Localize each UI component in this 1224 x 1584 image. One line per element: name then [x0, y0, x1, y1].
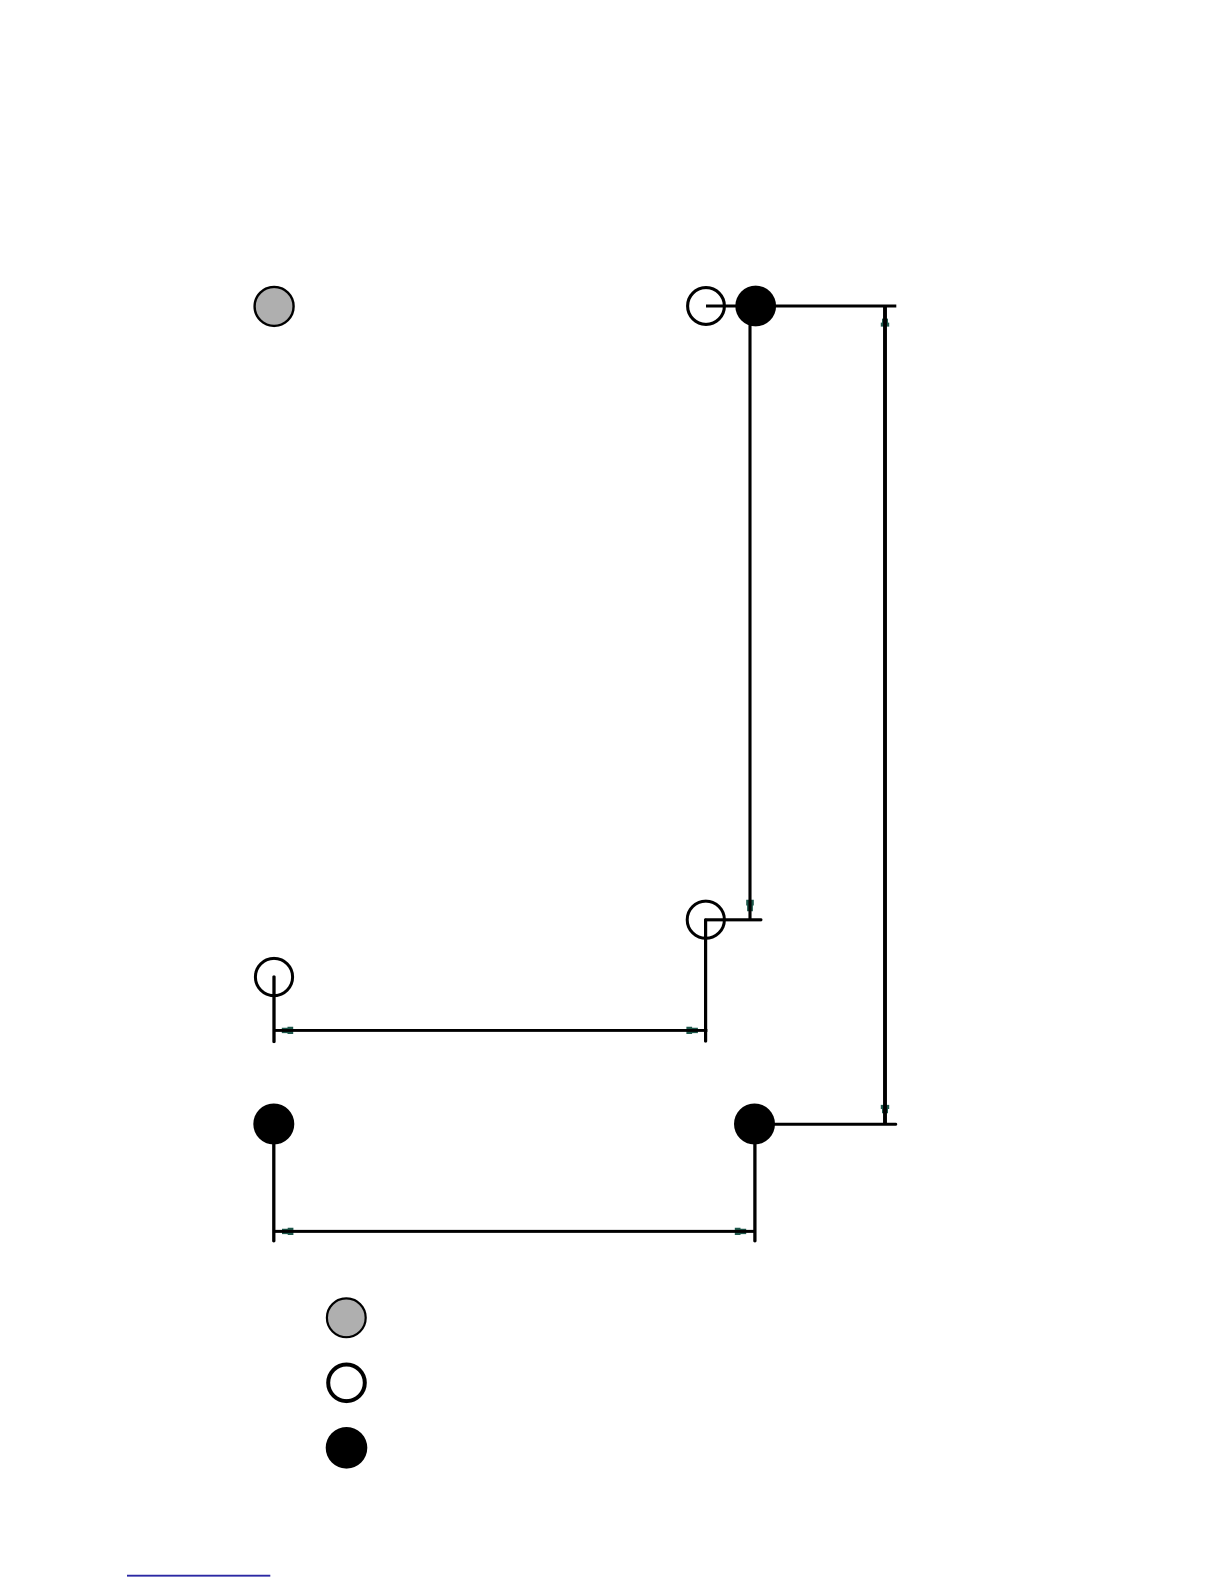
legend: black circle — [326, 1427, 368, 1469]
wire: vertical line from top black circle down to middle white circle level — [748, 306, 751, 920]
node: white circle top (proposed point) — [688, 288, 725, 325]
arrowhead down on line from top black circle — [746, 900, 754, 912]
wire: top horizontal line from white circle through black circle to right — [706, 305, 896, 308]
node: black circle bottom-left — [253, 1104, 294, 1145]
legend: gray circle — [327, 1298, 366, 1337]
wire: vertical extension below bottom-left black circle — [272, 1124, 275, 1241]
node: white circle middle — [687, 901, 724, 938]
node: black circle bottom-right — [734, 1104, 775, 1145]
wire: bottom horizontal dimension line — [274, 1230, 755, 1233]
wire: vertical extension below left white circle — [272, 977, 275, 1042]
wire: long right vertical dimension line — [883, 306, 887, 1124]
node: black circle top (fixed point) — [735, 286, 776, 327]
arrowhead left on middle dimension line — [282, 1027, 293, 1034]
legend: white circle — [328, 1365, 365, 1402]
arrowhead left on bottom dimension line — [282, 1228, 293, 1235]
wire: short horizontal line at middle white circle — [706, 918, 761, 921]
wire: vertical extension below bottom-right black circle — [753, 1124, 756, 1241]
arrowhead up on right vertical dimension line — [881, 319, 889, 327]
wire: middle horizontal dimension line — [274, 1029, 708, 1032]
node: gray circle top-left (existing point) — [255, 287, 294, 326]
arrowhead down bottom of right vertical dimension line — [881, 1105, 889, 1113]
node: white circle left — [255, 958, 292, 995]
wire: horizontal line from bottom-right black circle to dimension line — [755, 1123, 896, 1126]
hyperlink underline bottom-left — [127, 1575, 270, 1577]
wire: vertical extension below middle white circle — [704, 920, 707, 1041]
arrowhead right on middle dimension line — [686, 1027, 698, 1034]
arrowhead right on bottom dimension line — [735, 1228, 746, 1235]
